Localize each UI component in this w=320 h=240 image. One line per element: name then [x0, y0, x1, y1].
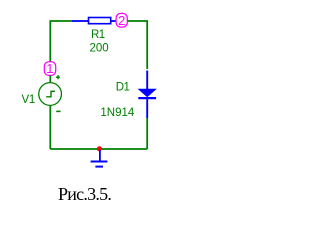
- svg-text:R1: R1: [91, 29, 105, 41]
- diode D1: [138, 71, 156, 119]
- source V1: [39, 83, 62, 106]
- wire diode to bottom-right corner: [146, 118, 148, 149]
- wire V1 to bottom: [49, 106, 51, 149]
- node 1: [44, 61, 55, 76]
- ground: [91, 150, 108, 167]
- wire node2 to top-right corner: [128, 21, 148, 69]
- caption: [58, 185, 111, 203]
- wire top-left (corner at 50,21): [50, 21, 72, 62]
- resistor R1: [72, 18, 116, 24]
- svg-text:D1: D1: [116, 81, 130, 93]
- svg-text:1N914: 1N914: [100, 107, 134, 119]
- svg-text:1: 1: [46, 61, 53, 76]
- wire node1 to V1: [49, 75, 51, 83]
- plus mark: [56, 75, 60, 79]
- svg-text:200: 200: [90, 43, 109, 55]
- minus mark: [56, 110, 60, 112]
- junction dot: [97, 146, 102, 151]
- svg-text:V1: V1: [22, 94, 35, 106]
- wire bottom: [50, 148, 147, 150]
- svg-text:2: 2: [118, 13, 125, 28]
- node 2: [116, 13, 127, 28]
